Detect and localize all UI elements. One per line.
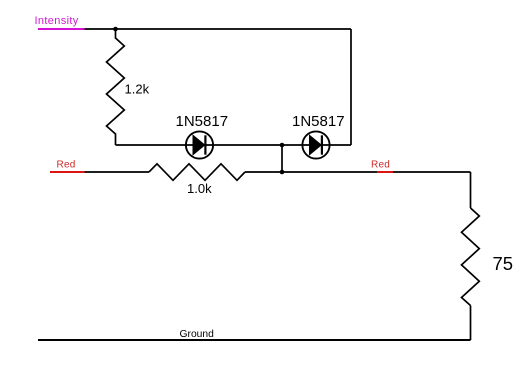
wire Red net left (red segment) [50,171,85,173]
svg-text:Intensity: Intensity [35,15,79,27]
svg-text:1N5817: 1N5817 [176,113,229,130]
wire diode row [116,144,352,146]
wire right column upper [470,172,472,208]
svg-text:75: 75 [493,253,514,274]
junction at R1 top [113,27,118,32]
wire junction vertical [281,145,283,172]
svg-text:Red: Red [57,159,76,170]
wire red row right [245,171,471,173]
wire Red net right (red segment) [377,171,393,173]
junction at diode row [280,143,285,148]
wire ground rail [38,339,471,341]
resistor R3 75 [462,208,480,306]
wire red row left [85,171,150,173]
wire right column lower [470,306,472,341]
svg-text:Red: Red [371,159,390,170]
wire top horizontal [85,28,352,30]
svg-text:1.0k: 1.0k [187,181,212,196]
wire Intensity net (magenta segment) [38,28,85,30]
resistor R2 1.0k [149,164,245,181]
resistor R1 1.2k [107,29,125,145]
junction at red row [280,170,285,175]
svg-text:1N5817: 1N5817 [292,113,345,130]
svg-text:Ground: Ground [180,329,215,340]
svg-text:1.2k: 1.2k [125,82,150,97]
diode D1 1N5817 [186,131,213,158]
wire right drop to D2 [350,29,352,145]
diode D2 1N5817 [302,131,329,158]
